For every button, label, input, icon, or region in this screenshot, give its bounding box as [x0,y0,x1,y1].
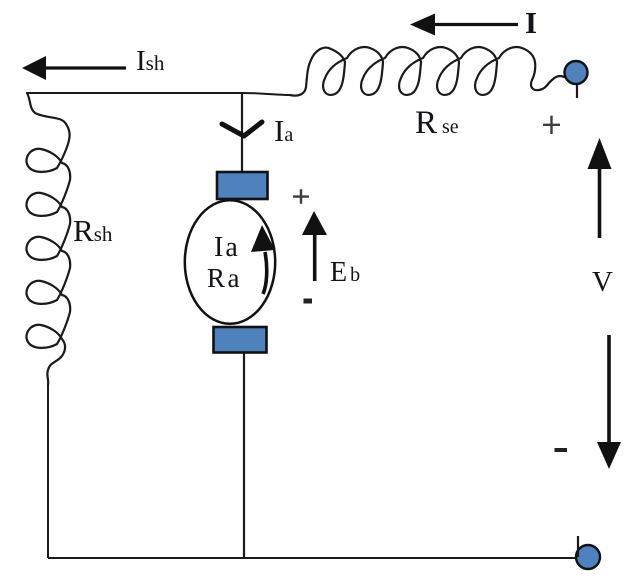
wire top horizontal (shunt branch to junction) [27,92,243,94]
label Ish [136,45,164,78]
armature rotation arrow head [251,225,275,252]
inductor R_se (series field coil) [290,47,564,96]
inductor R_sh (shunt field coil) [26,93,70,385]
terminal top tick [576,85,578,98]
armature circle [185,200,275,324]
brush top (blue rectangle) [217,172,268,199]
terminal top right (blue circle) [565,61,588,84]
label I (line current) [525,5,537,41]
wire bottom horizontal [48,557,590,559]
arrow V down shaft [607,335,611,443]
label Eb [330,257,360,289]
arrow V down head [597,442,621,469]
label R_sh [73,213,112,249]
arrow Ish head [22,56,46,80]
arrow Eb head [302,211,327,235]
minus sign near Eb [304,299,313,304]
label Ia (armature current) [274,113,293,149]
arrow Eb shaft [313,233,317,281]
plus sign near armature [293,189,309,204]
label V [592,266,613,299]
wire armature top [241,93,243,172]
wire junction to series coil [243,93,290,95]
label Ia inside armature [214,232,240,264]
plus sign near top terminal [543,116,560,134]
brush bottom (blue rectangle) [214,327,267,353]
arrow V up shaft [598,168,602,238]
wire left vertical [47,384,49,558]
arrow Ish shaft [45,66,126,69]
terminal bottom tick [577,536,579,557]
label R_se [415,105,459,142]
armature rotation arrow shaft [263,252,267,294]
arrow I shaft [433,23,518,26]
wire armature bottom [243,353,245,559]
arrow I head [410,14,435,36]
arrow V up head [588,138,612,169]
terminal bottom right (blue circle) [576,545,600,569]
minus sign near V [555,448,568,452]
label Ra inside armature [207,263,242,294]
Ia direction chevron [222,122,262,136]
